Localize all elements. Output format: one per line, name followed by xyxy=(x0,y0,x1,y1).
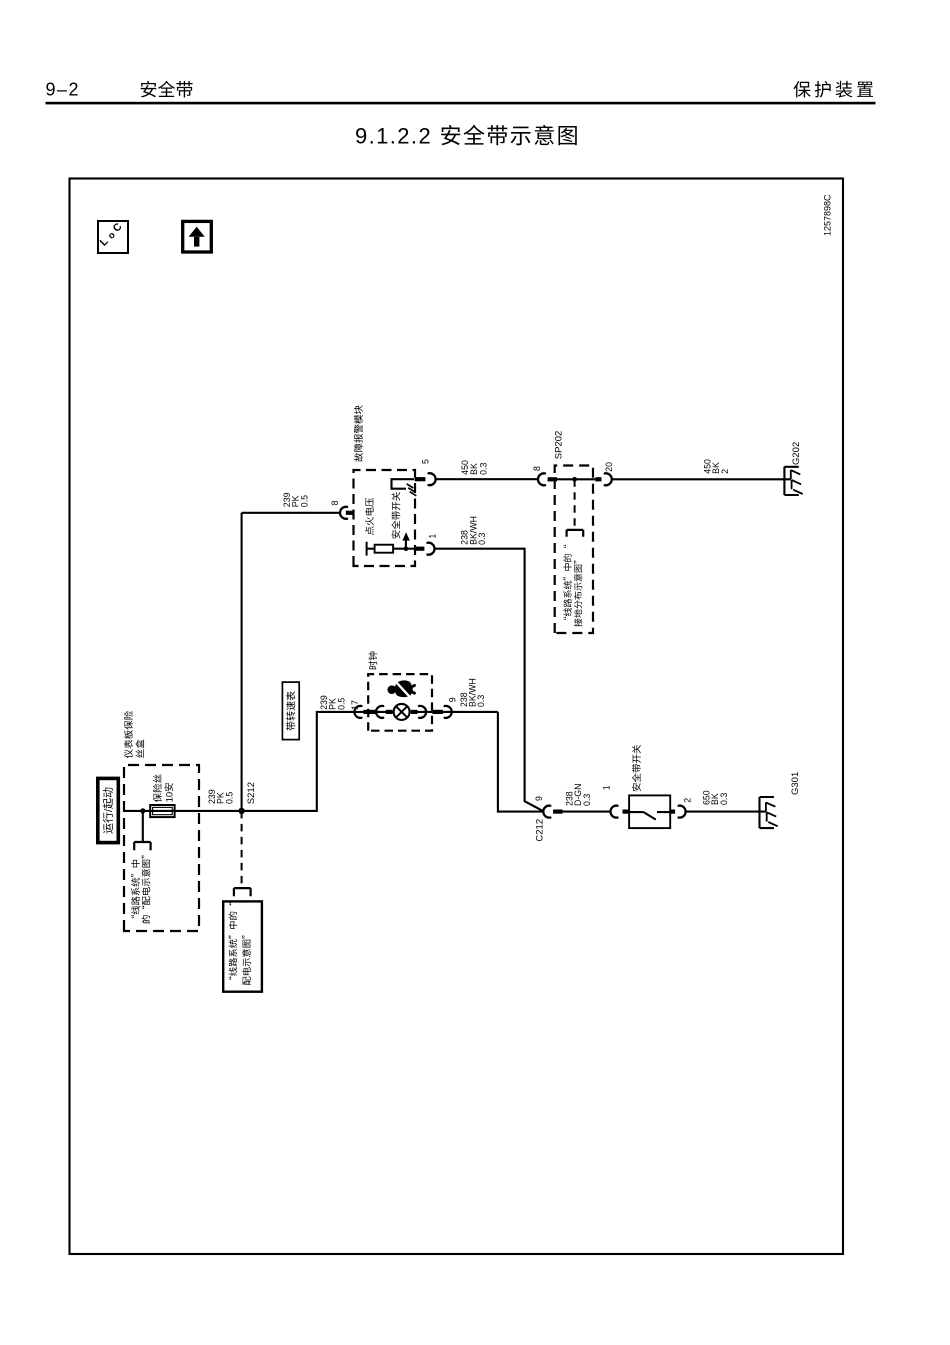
dashed branch inside SP202 xyxy=(574,479,576,530)
wire through clock connectors xyxy=(354,711,498,713)
svg-text:2: 2 xyxy=(718,469,731,474)
clock module box (时钟, dashed) xyxy=(368,674,432,731)
connector arc C212 pin 9 xyxy=(543,806,550,818)
wire label 450 BK 0.3 xyxy=(458,460,490,475)
resistor R (module internal) xyxy=(375,545,394,553)
connector arc SP202 pin 8 xyxy=(538,473,545,485)
male pin stub (SP202 out) xyxy=(595,477,601,481)
header rule xyxy=(46,102,876,105)
svg-text:C212: C212 xyxy=(532,819,546,842)
wire label 238 BK/WH 0.3 (module pin 1) xyxy=(458,516,488,545)
junction dot (signal arrow) xyxy=(404,546,409,551)
legend up-arrow box xyxy=(183,221,212,252)
wire label 238 D-GN 0.3 xyxy=(563,784,593,806)
male pin stub (pin 9) xyxy=(433,710,444,714)
svg-text:保护装置: 保护装置 xyxy=(793,76,877,102)
svg-text:丝盒: 丝盒 xyxy=(132,739,146,759)
wire label 650 BK 0.3 xyxy=(700,790,730,805)
wire S212 down-jog to clock branch xyxy=(242,712,355,811)
svg-text:9: 9 xyxy=(532,796,545,801)
label 线路系统 接地分布示意图 xyxy=(561,544,585,627)
connector arc module pin 5 xyxy=(429,473,436,485)
wire bus to pin 8 xyxy=(242,512,341,514)
svg-text:10安: 10安 xyxy=(161,782,175,802)
svg-text:故障报警模块: 故障报警模块 xyxy=(351,404,365,462)
svg-text:SP202: SP202 xyxy=(550,431,564,460)
qualifier label box 带转速表 (with tachometer) xyxy=(282,682,299,740)
connector arc pin 9 (outer) xyxy=(445,706,452,718)
connector arc pin 17 (outer) xyxy=(354,706,361,718)
connector arc pin 8 xyxy=(340,507,347,519)
male pin stub (C212) xyxy=(553,809,563,813)
wire label 238 BK/WH 0.3 (clock to C212) xyxy=(457,678,487,707)
wire label 239 PK 0.5 (clock branch) xyxy=(317,695,347,710)
seat belt telltale icon xyxy=(388,680,416,697)
svg-text:G202: G202 xyxy=(788,442,802,465)
male pin stub (pin 17) xyxy=(363,710,377,714)
male pin stub (module pin 1) xyxy=(415,547,425,551)
svg-text:1: 1 xyxy=(425,534,438,539)
chime wire and internal ground (module) xyxy=(392,479,417,496)
svg-text:配电示意图”: 配电示意图” xyxy=(239,930,253,986)
splice pack SP202 box (dashed) xyxy=(555,466,593,634)
connector arc switch pin 1 xyxy=(611,806,618,818)
svg-text:点火电压: 点火电压 xyxy=(362,497,376,536)
connector arc pin 9 (inner) xyxy=(419,706,426,718)
power feed label RUN/START (运行/起动) xyxy=(98,778,119,842)
male pin stub (SP202 in) xyxy=(548,477,557,481)
svg-text:9.1.2.2 安全带示意图: 9.1.2.2 安全带示意图 xyxy=(355,119,580,151)
splice S212 junction dot xyxy=(238,808,244,814)
junction dot SP202 xyxy=(572,477,577,482)
fault alarm module box (故障报警模块, dashed) xyxy=(354,470,416,566)
wire resistor to pin 1 xyxy=(393,548,415,550)
switch blade (open contact) xyxy=(629,812,670,820)
reference label in fuse box (线路系统 配电示意图) xyxy=(128,850,153,924)
instrument panel fuse block box (仪表板保险丝盒, dashed) xyxy=(124,765,199,931)
seat belt switch S box xyxy=(629,795,670,828)
svg-text:0.3: 0.3 xyxy=(475,532,488,544)
svg-text:0.3: 0.3 xyxy=(474,695,487,707)
ground G202 symbol xyxy=(784,467,802,495)
svg-text:0.3: 0.3 xyxy=(717,793,730,805)
off-page connector fork (S212 ref) xyxy=(234,888,251,896)
svg-text:“线路系统”中的“: “线路系统”中的“ xyxy=(226,902,240,986)
wire C212 to switch pin 1 xyxy=(563,811,612,813)
ground G301 symbol xyxy=(760,797,778,828)
wire label 239 PK 0.5 (above S212) xyxy=(205,789,235,804)
svg-text:带转速表: 带转速表 xyxy=(282,691,297,731)
signal arrow (module internal) xyxy=(402,532,410,548)
svg-text:1257898C: 1257898C xyxy=(820,194,833,236)
svg-text:20: 20 xyxy=(602,462,615,472)
svg-text:1: 1 xyxy=(599,785,612,790)
svg-text:S212: S212 xyxy=(243,782,257,804)
dashed reference wire from S212 xyxy=(241,811,243,888)
svg-text:时钟: 时钟 xyxy=(365,651,379,670)
wire T-bar to resistor xyxy=(367,548,375,550)
svg-text:0.5: 0.5 xyxy=(222,792,235,804)
svg-text:8: 8 xyxy=(530,466,543,471)
reference box 线路系统 配电示意图 xyxy=(223,901,262,991)
terminal T-bar (module internal) xyxy=(366,542,368,556)
male pin stub (switch pin 2) xyxy=(670,809,675,813)
connector arc pin 17 (inner) xyxy=(376,706,383,718)
svg-text:0.5: 0.5 xyxy=(334,698,347,710)
male pin stub (pin 8) xyxy=(346,511,354,515)
connector arc module pin 1 xyxy=(427,543,434,555)
wire 239 feed from RUN/START through fuse to S212 xyxy=(124,810,242,812)
svg-text:的“配电示意图”: 的“配电示意图” xyxy=(139,850,153,924)
svg-text:9–2: 9–2 xyxy=(46,75,81,101)
svg-text:G301: G301 xyxy=(787,772,801,795)
svg-text:0.3: 0.3 xyxy=(580,794,593,806)
label 仪表板保险丝盒 xyxy=(121,710,147,758)
wire label 450 BK 2 xyxy=(701,459,731,474)
male pin stub (switch pin 1) xyxy=(623,809,630,813)
lamp thick lead (top) xyxy=(386,710,393,714)
fuse 10A symbol xyxy=(150,805,174,817)
svg-text:0.5: 0.5 xyxy=(297,495,310,507)
lamp thick lead (bottom) xyxy=(411,710,418,714)
seat belt indicator lamp L1 xyxy=(394,704,410,720)
off-page connector fork (power distribution) xyxy=(134,842,150,850)
off-page connector fork (SP202 ground ref) xyxy=(567,530,584,537)
wire module pin 1 to C212 (with diagonal) xyxy=(434,549,544,812)
svg-text:安全带开关: 安全带开关 xyxy=(629,744,643,792)
connector arc switch pin 2 xyxy=(679,806,686,818)
svg-text:接地分布示意图”: 接地分布示意图” xyxy=(572,555,585,627)
svg-text:5: 5 xyxy=(419,459,432,464)
svg-text:8: 8 xyxy=(328,500,341,505)
legend LOC box xyxy=(96,219,128,253)
wire label 239 PK 0.5 (to module pin 8) xyxy=(280,492,310,507)
wire clock pin 9 to C212 xyxy=(498,712,544,812)
label fuse 保险丝 10安 xyxy=(150,774,176,803)
junction dot (fuse box feed) xyxy=(140,808,145,813)
svg-text:运行/起动: 运行/起动 xyxy=(100,787,116,834)
wire SP202 to G202 xyxy=(611,478,791,480)
svg-text:2: 2 xyxy=(681,798,694,803)
svg-text:安全带开关: 安全带开关 xyxy=(389,491,403,539)
wire module pin 5 to SP202 xyxy=(435,478,538,480)
svg-text:安全带: 安全带 xyxy=(140,76,194,102)
wire through SP202 xyxy=(555,478,596,480)
connector arc SP202 pin 20 xyxy=(605,473,612,485)
wire bus S212 to module pin 8 xyxy=(241,513,243,811)
male pin stub (module pin 5) xyxy=(415,477,426,481)
wire branch to power distribution reference xyxy=(142,811,144,842)
diagram frame xyxy=(70,179,844,1255)
wire switch to G301 xyxy=(685,811,766,813)
svg-text:0.3: 0.3 xyxy=(476,462,489,474)
